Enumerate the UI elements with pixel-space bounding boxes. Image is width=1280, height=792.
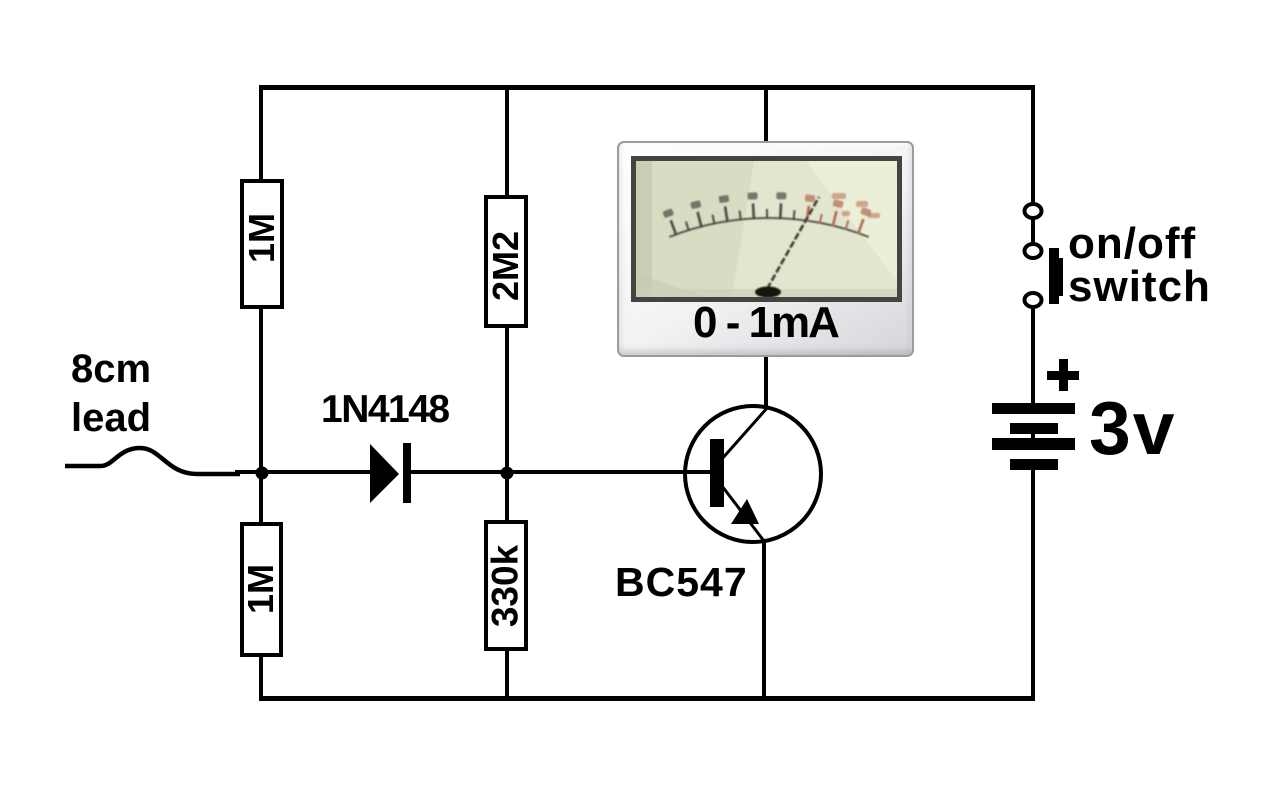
label on/off switch: [1068, 222, 1211, 308]
wire left rail upper: [259, 85, 263, 181]
transistor Q1 base bar: [710, 439, 724, 507]
wire meter to collector: [764, 355, 768, 407]
node B junction dot: [501, 467, 514, 480]
resistor R1 1M (upper left): [242, 181, 282, 307]
wire left rail lower: [259, 655, 263, 700]
label BC547: [615, 562, 748, 603]
wire input to diode: [235, 470, 370, 474]
wire bottom bus: [259, 696, 1035, 701]
battery B1 plate 1 long: [992, 403, 1075, 414]
label R1 value 1M: [244, 213, 280, 263]
wire top bus: [259, 85, 1035, 90]
diode D1 cathode bar: [403, 443, 411, 503]
wire left rail middle: [259, 307, 263, 524]
switch SW1 terminal circle 1: [1025, 204, 1042, 218]
meter M1 range label 0 - 1mA: [619, 298, 912, 348]
wire switch rail top: [1031, 89, 1035, 204]
wire switch to battery: [1031, 307, 1035, 403]
wire divider rail lower: [505, 649, 509, 700]
label 1N4148: [321, 390, 449, 429]
switch SW1 terminal circle 3: [1025, 293, 1042, 307]
wire emitter rail: [762, 540, 766, 697]
node A junction dot: [256, 467, 269, 480]
wire switch link: [1031, 218, 1035, 245]
label 8cm lead: [71, 345, 151, 443]
meter M1 screen window: [631, 156, 902, 302]
meter M1 pivot: [755, 287, 781, 298]
resistor R4 330k: [486, 522, 526, 649]
diode D1 1N4148 anode triangle: [370, 444, 399, 503]
label R4 value 330k: [487, 545, 524, 627]
battery B1 plus sign: [1047, 371, 1079, 380]
transistor Q1 collector diagonal: [721, 407, 768, 460]
wire meter top lead: [764, 89, 768, 143]
label 3v: [1089, 391, 1176, 466]
resistor R2 1M (lower left): [242, 524, 281, 655]
meter M1 face and scale: [636, 161, 897, 297]
resistor R3 2M2: [486, 197, 526, 326]
transistor Q1 BC547 circle: [685, 406, 821, 542]
wire divider rail middle: [505, 326, 509, 522]
transistor Q1 emitter arrow: [731, 499, 759, 524]
meter M1 body: [617, 141, 914, 357]
switch SW1 lever bar: [1049, 248, 1059, 304]
battery B1 plate 4 short: [1010, 459, 1058, 470]
wire 8cm lead squiggle: [65, 448, 240, 474]
transistor Q1 emitter diagonal: [722, 486, 764, 541]
battery B1 plate 3 long: [992, 438, 1075, 450]
label R3 value 2M2: [488, 231, 524, 301]
wire divider rail upper: [505, 85, 509, 197]
switch SW1 terminal circle 2: [1025, 244, 1042, 258]
wire diode to base: [411, 470, 711, 474]
meter M1 needle: [767, 197, 819, 289]
wire battery to bottom bus: [1031, 470, 1035, 701]
battery B1 plate 2 short: [1010, 423, 1058, 434]
battery B1 cell stub: [1031, 434, 1035, 439]
label R2 value 1M: [243, 564, 279, 614]
